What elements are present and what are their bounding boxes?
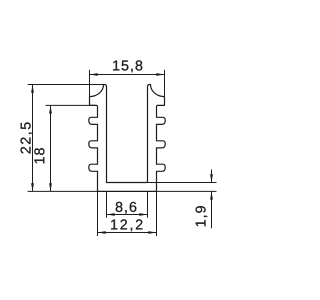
- dim 8,6 right extension line: [147, 191, 149, 217]
- arrowhead 15,8 left: [90, 73, 98, 76]
- arrowhead 15,8 right: [156, 73, 164, 76]
- label 15,8: [113, 60, 142, 72]
- profile outline U-channel extrusion cross-section: [89, 85, 165, 192]
- arrowhead 8,6 right: [139, 213, 147, 216]
- dim 12,2 dimension line: [98, 232, 157, 234]
- arrowhead 18 bottom: [49, 183, 52, 191]
- arrowhead 12,2 left: [98, 231, 106, 234]
- arrowhead 12,2 right: [148, 231, 156, 234]
- dim 12,2 right extension line: [156, 191, 158, 236]
- label 12,2: [111, 219, 142, 231]
- arrowhead 1,9 bottom (outside, pointing up): [210, 191, 213, 199]
- arrowhead 22,5 top: [31, 85, 34, 93]
- dim 18 dimension line: [50, 105, 52, 191]
- label 1,9: [196, 206, 208, 226]
- dim 22,5 top extension line: [28, 84, 104, 86]
- arrowhead 22,5 bottom: [31, 183, 34, 191]
- dim 8,6 dimension line: [107, 214, 148, 216]
- label 22,5: [21, 122, 33, 153]
- dim 15,8 dimension line: [90, 74, 165, 76]
- arrowhead 1,9 top (outside, pointing down): [210, 174, 213, 182]
- dim 1,9 upper extension line (inner floor): [147, 182, 217, 184]
- dim 12,2 left extension line: [97, 191, 99, 236]
- label 18: [34, 148, 44, 163]
- dim 1,9 dimension line upper segment: [211, 170, 213, 183]
- dim 22,5 / 18 bottom extension line: [28, 190, 98, 192]
- dim 22,5 dimension line: [32, 85, 34, 192]
- dim 15,8 right extension line: [164, 70, 166, 97]
- dim 15,8 left extension line: [89, 70, 91, 97]
- dim 1,9 lower extension line (outer floor): [157, 190, 217, 192]
- dim 1,9 dimension line lower segment: [211, 191, 213, 228]
- label 8,6: [116, 202, 137, 214]
- dim 8,6 left extension line: [106, 191, 108, 217]
- arrowhead 18 top: [49, 105, 52, 113]
- dim 18 top extension line: [46, 104, 95, 106]
- arrowhead 8,6 left: [107, 213, 115, 216]
